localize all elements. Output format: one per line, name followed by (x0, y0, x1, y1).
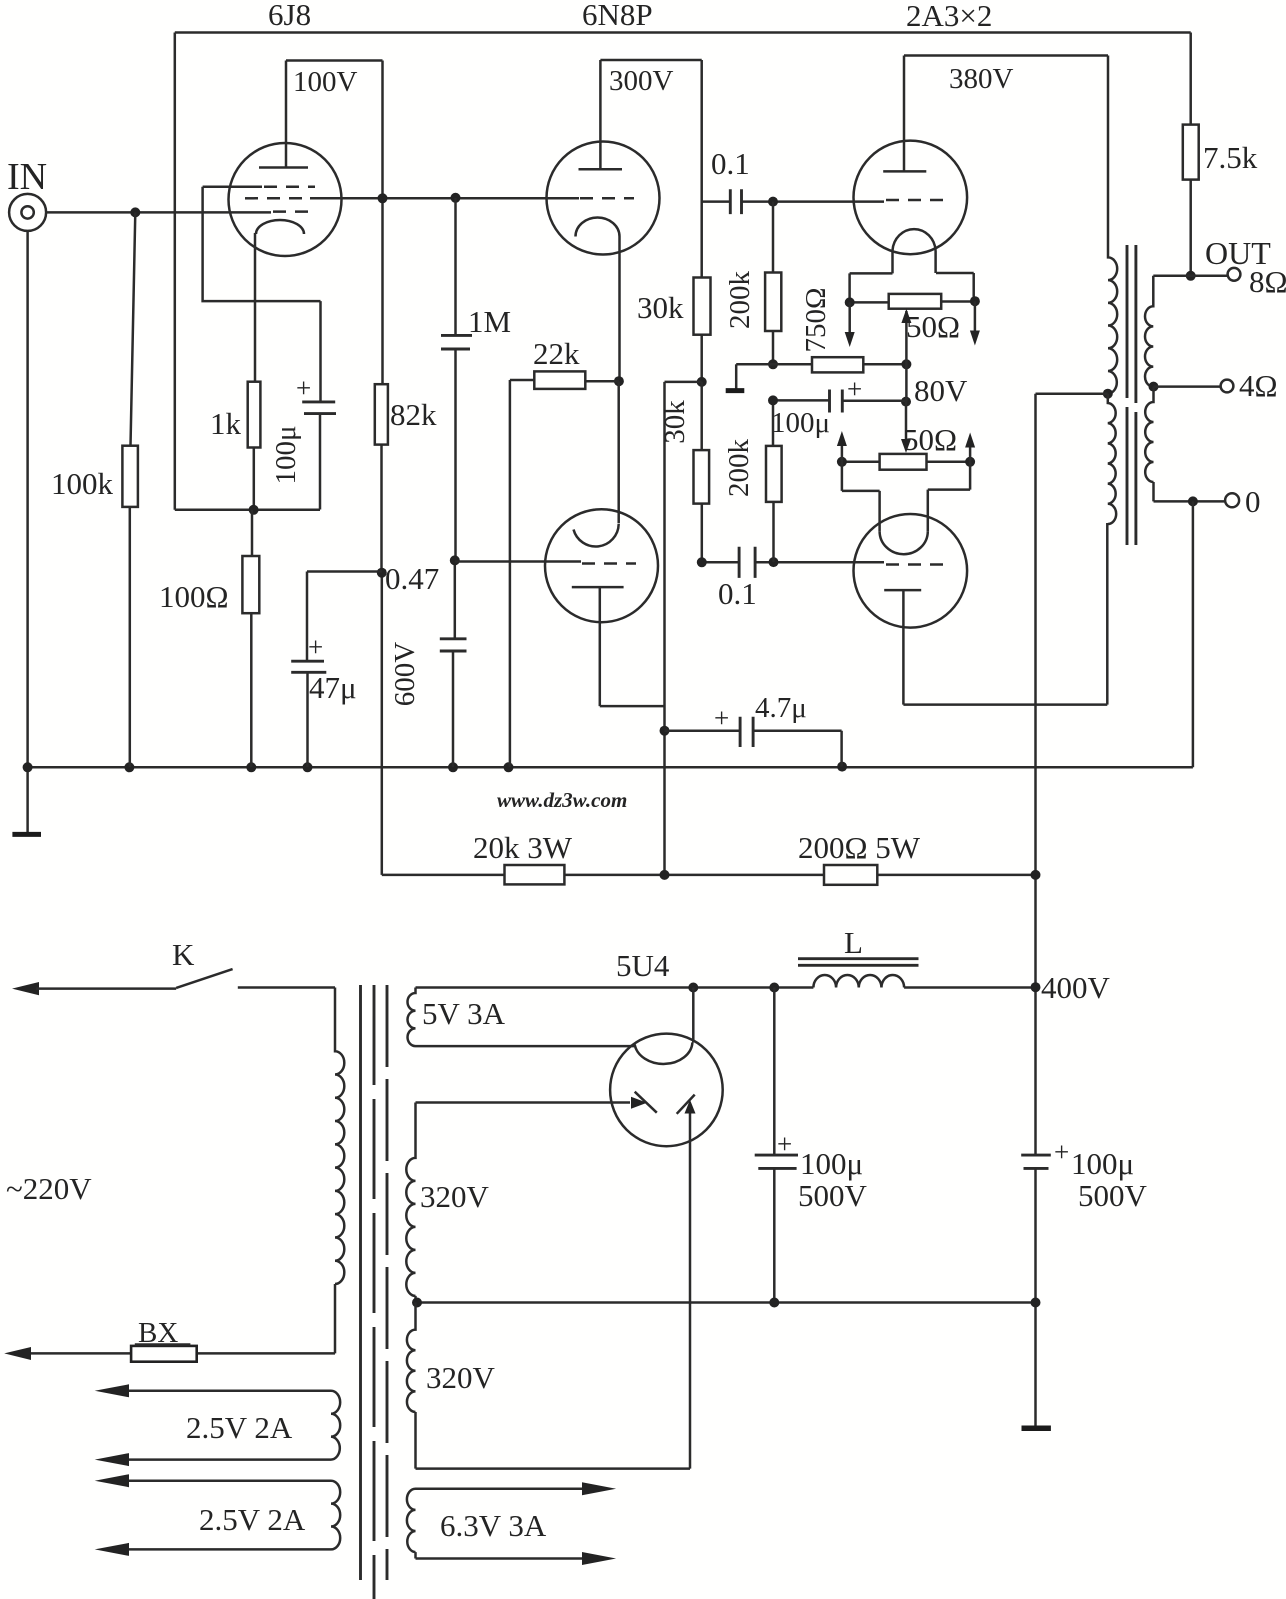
potentiometer 50ohm lower (842, 422, 970, 470)
node 0.1 lower left (697, 557, 707, 567)
svg-text:22k: 22k (533, 336, 580, 371)
svg-text:100μ: 100μ (1071, 1146, 1134, 1181)
node cathode bias node (249, 505, 259, 515)
tube 2A3 upper filament (893, 229, 936, 273)
node 750 right junction (901, 359, 911, 369)
wire 300V box (600, 60, 701, 278)
svg-text:500V: 500V (1078, 1178, 1148, 1213)
capacitor 0.47 600V (385, 560, 467, 767)
svg-text:www.dz3w.com: www.dz3w.com (497, 788, 627, 812)
capacitor 1M (441, 198, 511, 561)
capacitor 0.1 lower (702, 547, 884, 611)
node dropper tap (1034, 874, 1036, 876)
transformer OT secondary lower (1145, 387, 1225, 502)
wire B+ rectified (416, 986, 814, 989)
svg-text:0.1: 0.1 (718, 576, 757, 611)
wire ground rail (28, 766, 1193, 769)
wire primary center tap to rail (1036, 394, 1108, 1155)
transformer PT primary (335, 988, 344, 1354)
node screen/box junction (378, 193, 388, 203)
wire bias row (736, 363, 812, 366)
node 4.7u junction (660, 726, 670, 736)
tube 6N8P lower grid dashes (582, 562, 636, 565)
node input junction (130, 207, 140, 217)
wire pot upper wiper (905, 311, 908, 402)
svg-text:500V: 500V (798, 1178, 868, 1213)
resistor 22k (510, 336, 619, 767)
tube 6J8 grid g2 dashes (245, 197, 308, 200)
wire 380V box (904, 54, 1108, 57)
choke L (798, 925, 1036, 988)
svg-text:380V: 380V (949, 63, 1014, 95)
node cap1 top (769, 983, 779, 993)
wire 30k junction to dropper (665, 382, 702, 875)
winding 320V upper (406, 1103, 489, 1303)
transformer OT primary lower (1108, 394, 1116, 524)
capacitor 4.7u (665, 692, 842, 767)
ground symbol left (12, 832, 41, 837)
resistor 30k upper (637, 278, 711, 382)
tube 2A3 upper grid dashes (886, 199, 948, 202)
wire NFB top rail (175, 31, 1191, 34)
svg-text:750Ω: 750Ω (800, 287, 832, 352)
resistor 30k lower (659, 382, 709, 562)
tube 2A3 upper envelope (854, 141, 968, 255)
svg-text:IN: IN (7, 156, 47, 198)
svg-text:100μ: 100μ (800, 1146, 863, 1181)
tube 6N8P upper plate (579, 60, 623, 169)
node CT rail (1031, 1298, 1041, 1308)
node pot lower right (965, 457, 975, 467)
transformer OT secondary upper (1145, 276, 1153, 387)
resistor 20k 3W (473, 830, 573, 884)
capacitor 100u bias (771, 374, 906, 439)
node rectifier output (688, 983, 698, 993)
svg-text:600V: 600V (389, 642, 421, 707)
node pot upper right (970, 296, 980, 306)
tube 6N8P lower cathode (574, 381, 619, 546)
node pot lower left (837, 457, 847, 467)
wire screen row to 6N8P grid (310, 197, 579, 200)
node 400V (1031, 982, 1041, 992)
node dropper mid (660, 870, 670, 880)
winding 5V 3A (408, 988, 635, 1047)
svg-text:20k 3W: 20k 3W (473, 830, 573, 865)
node 30k junction (697, 377, 707, 387)
svg-text:1M: 1M (468, 304, 511, 339)
resistor 82k (375, 384, 437, 875)
node bias row left (768, 359, 778, 369)
svg-text:+: + (777, 1129, 792, 1159)
potentiometer 50ohm upper (850, 294, 975, 344)
node CT cap1 (769, 1298, 779, 1308)
winding 320V lower (407, 1303, 690, 1469)
tube 6N8P lower plate (572, 587, 624, 706)
svg-text:OUT: OUT (1205, 235, 1271, 271)
tube 6J8 grid g3 dashes (203, 186, 262, 189)
svg-text:100μ: 100μ (270, 425, 302, 484)
svg-text:7.5k: 7.5k (1203, 140, 1258, 175)
wire NFB left vertical (174, 33, 177, 510)
wire filament yoke upper (850, 273, 974, 302)
node bias cap left (768, 395, 778, 405)
svg-text:+: + (296, 373, 311, 403)
tube 5U4 plate right (677, 1095, 696, 1469)
ground symbol bias (735, 364, 738, 388)
resistor 200ohm 5W (798, 830, 921, 885)
svg-text:30k: 30k (637, 290, 684, 325)
svg-text:320V: 320V (420, 1179, 490, 1214)
capacitor 100u 500V first (755, 988, 868, 1303)
svg-text:200k: 200k (723, 439, 755, 498)
node coupling to lower triode (450, 555, 460, 565)
input jack (9, 194, 46, 231)
terminal 0 (1225, 484, 1260, 519)
terminal 8ohm (1228, 264, 1286, 299)
transformer OT primary upper (1108, 56, 1117, 394)
node 8ohm junction (1186, 271, 1196, 281)
svg-text:5V 3A: 5V 3A (422, 996, 506, 1031)
tube 6N8P upper envelope (547, 142, 660, 255)
tube 6J8 grid g1 dashes (273, 210, 315, 213)
node dropper right (1031, 870, 1041, 880)
svg-text:100k: 100k (51, 466, 114, 501)
wire grid lower 6N8P (455, 560, 581, 563)
wire lower plate to node (600, 705, 665, 708)
tube 6N8P upper grid dashes (580, 197, 634, 200)
resistor 100k (51, 212, 138, 767)
tube 5U4 plate left (416, 1092, 657, 1113)
wire filament yoke lower (842, 462, 970, 531)
wire 100V box (286, 61, 383, 385)
tube 6J8 plate (259, 61, 308, 168)
capacitor 100u 500V second (1021, 1137, 1147, 1428)
node 47u junction (377, 568, 387, 578)
tube 2A3 upper plate (883, 56, 926, 172)
fuse BX (4, 1317, 335, 1362)
svg-text:30k: 30k (659, 400, 691, 444)
node 0.1 lower right (769, 557, 779, 567)
winding 2.5V 2A second (95, 1474, 341, 1556)
svg-text:4Ω: 4Ω (1239, 368, 1278, 403)
svg-text:300V: 300V (609, 65, 674, 97)
wire 8ohm tap (1153, 275, 1227, 278)
winding 2.5V 2A first (95, 1384, 341, 1466)
tube 2A3 lower envelope (854, 514, 968, 628)
node 0 tap junction (1188, 496, 1198, 506)
svg-text:~220V: ~220V (6, 1171, 92, 1206)
svg-text:100Ω: 100Ω (159, 579, 229, 614)
node CT left (412, 1298, 422, 1308)
svg-text:4.7μ: 4.7μ (755, 692, 807, 724)
node secondary 4ohm tap (1149, 382, 1159, 392)
resistor 200k lower (723, 400, 782, 562)
svg-text:100μ: 100μ (771, 407, 830, 439)
svg-text:K: K (172, 937, 195, 972)
switch K (12, 969, 335, 995)
tube 5U4 envelope (610, 1034, 723, 1147)
svg-text:320V: 320V (426, 1360, 496, 1395)
wire 4ohm tap (1154, 385, 1221, 388)
svg-text:2.5V 2A: 2.5V 2A (186, 1410, 293, 1445)
wire pot lower end arrows (842, 444, 970, 462)
wire center tap row (416, 1301, 1036, 1304)
node 6N8P cathode junction (614, 376, 624, 386)
node grid-coupling junction (451, 193, 461, 203)
svg-text:+: + (1054, 1137, 1069, 1167)
resistor 200k upper (724, 202, 781, 365)
svg-text:6N8P: 6N8P (582, 0, 653, 32)
svg-text:0.1: 0.1 (711, 146, 750, 181)
svg-text:5U4: 5U4 (616, 948, 670, 983)
svg-text:+: + (308, 632, 323, 662)
svg-text:400V: 400V (1041, 970, 1111, 1005)
capacitor 100u cathode (270, 301, 336, 509)
winding 6.3V 3A (407, 1482, 616, 1565)
tube 2A3 lower filament (880, 531, 928, 554)
svg-text:L: L (844, 925, 863, 960)
tube 6N8P upper cathode (576, 218, 620, 382)
svg-text:50Ω: 50Ω (903, 422, 957, 457)
capacitor 47u (291, 572, 382, 768)
wire hum chain down (905, 402, 908, 440)
svg-text:1k: 1k (210, 406, 242, 441)
svg-text:47μ: 47μ (309, 670, 357, 705)
resistor 750ohm (800, 287, 906, 372)
wire pot upper end arrows (850, 301, 975, 334)
tube 6J8 cathode (256, 220, 304, 234)
svg-text:80V: 80V (914, 373, 968, 408)
resistor 1k (210, 233, 260, 510)
wire dropper row (382, 874, 1036, 877)
tube 5U4 filament (635, 988, 694, 1064)
resistor 7.5k (1183, 33, 1258, 276)
svg-text:6J8: 6J8 (268, 0, 311, 32)
wire lower 2A3 plate to primary (903, 523, 1107, 705)
svg-text:200Ω 5W: 200Ω 5W (798, 830, 921, 865)
transformer OT core (1127, 245, 1136, 545)
node pot upper left (845, 297, 855, 307)
wire g3 to bypass node (203, 187, 321, 301)
svg-text:6.3V 3A: 6.3V 3A (440, 1508, 547, 1543)
svg-text:100V: 100V (293, 66, 358, 98)
resistor 100ohm (159, 510, 259, 768)
node primary center tap (1103, 389, 1113, 399)
svg-text:2A3×2: 2A3×2 (906, 0, 992, 33)
transformer PT core (361, 985, 388, 1599)
svg-text:+: + (847, 374, 862, 404)
tube 6N8P lower envelope (545, 509, 658, 622)
svg-text:+: + (714, 703, 729, 733)
wire cathode node row (175, 509, 320, 512)
svg-text:82k: 82k (390, 397, 437, 432)
svg-text:200k: 200k (724, 271, 756, 330)
capacitor 0.1 upper (702, 146, 884, 214)
svg-text:0.47: 0.47 (385, 561, 439, 596)
terminal 4ohm (1221, 368, 1278, 403)
node rail junctions (23, 762, 848, 773)
svg-text:50Ω: 50Ω (906, 309, 960, 344)
ground symbol PSU (1022, 1426, 1051, 1432)
wire input to grid (46, 211, 271, 214)
wire 0 tap to ground rail (1192, 501, 1195, 767)
tube 2A3 lower grid dashes (886, 563, 948, 566)
wire jack ground drop (26, 231, 29, 834)
tube 6J8 envelope (229, 143, 342, 256)
node coupling junction upper (768, 197, 778, 207)
tube 2A3 lower plate (884, 590, 921, 705)
svg-text:2.5V 2A: 2.5V 2A (199, 1502, 306, 1537)
svg-text:0: 0 (1245, 484, 1261, 519)
node 80V junction (901, 397, 911, 407)
